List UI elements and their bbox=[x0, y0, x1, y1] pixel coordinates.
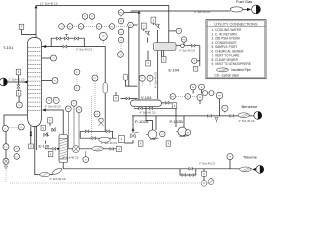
svg-text:4" Sch 40 CS: 4" Sch 40 CS bbox=[154, 72, 158, 88]
svg-text:UTILITY CONNECTIONS: UTILITY CONNECTIONS bbox=[214, 22, 258, 26]
svg-text:2" Sch 40 CS: 2" Sch 40 CS bbox=[50, 177, 66, 181]
svg-text:FC: FC bbox=[111, 26, 114, 28]
svg-text:PC: PC bbox=[129, 25, 132, 27]
svg-text:FC: FC bbox=[224, 108, 227, 110]
svg-text:PG: PG bbox=[171, 96, 174, 98]
svg-text:FC: FC bbox=[102, 36, 105, 38]
svg-text:TC: TC bbox=[48, 100, 51, 102]
svg-text:4" Sch 40 CS: 4" Sch 40 CS bbox=[179, 49, 195, 53]
svg-text:4" Sch 40 CS: 4" Sch 40 CS bbox=[76, 47, 92, 51]
svg-text:2" Sch 40 CS: 2" Sch 40 CS bbox=[199, 161, 215, 165]
svg-text:PC: PC bbox=[80, 26, 83, 28]
svg-text:Fuel Gas: Fuel Gas bbox=[236, 0, 252, 4]
svg-text:9. VENT TO ATMOSPHERE: 9. VENT TO ATMOSPHERE bbox=[212, 62, 251, 66]
svg-text:4" Sch 40 CS: 4" Sch 40 CS bbox=[45, 104, 61, 108]
svg-text:CS - carbon steel: CS - carbon steel bbox=[215, 74, 240, 78]
svg-text:TC: TC bbox=[15, 156, 18, 158]
svg-text:P-102B: P-102B bbox=[170, 119, 184, 124]
svg-text:PG: PG bbox=[182, 39, 185, 41]
svg-text:PG: PG bbox=[119, 12, 122, 14]
svg-text:12" Sch 40 CS: 12" Sch 40 CS bbox=[40, 2, 58, 6]
svg-text:T-101: T-101 bbox=[3, 45, 14, 50]
svg-text:2" Sch 40 CS: 2" Sch 40 CS bbox=[9, 78, 25, 82]
svg-text:Insulated Pipe: Insulated Pipe bbox=[231, 68, 251, 72]
svg-text:V-104: V-104 bbox=[141, 95, 152, 100]
svg-text:M: M bbox=[192, 87, 194, 89]
svg-text:4" Sch 40 CS: 4" Sch 40 CS bbox=[194, 10, 210, 14]
svg-text:4" Sch 40 CS: 4" Sch 40 CS bbox=[63, 156, 79, 160]
svg-text:4" Sch 40 CS: 4" Sch 40 CS bbox=[140, 111, 156, 115]
svg-text:Toluene: Toluene bbox=[243, 154, 258, 159]
svg-text:E-106: E-106 bbox=[39, 144, 50, 149]
svg-text:Benzene: Benzene bbox=[242, 104, 259, 109]
svg-text:2" Sch 40 CS: 2" Sch 40 CS bbox=[239, 119, 255, 123]
svg-text:E-104: E-104 bbox=[169, 68, 180, 73]
svg-text:2" Sch 40 CS: 2" Sch 40 CS bbox=[101, 141, 117, 145]
svg-text:TC: TC bbox=[91, 16, 94, 18]
svg-text:P-102A: P-102A bbox=[135, 119, 149, 124]
